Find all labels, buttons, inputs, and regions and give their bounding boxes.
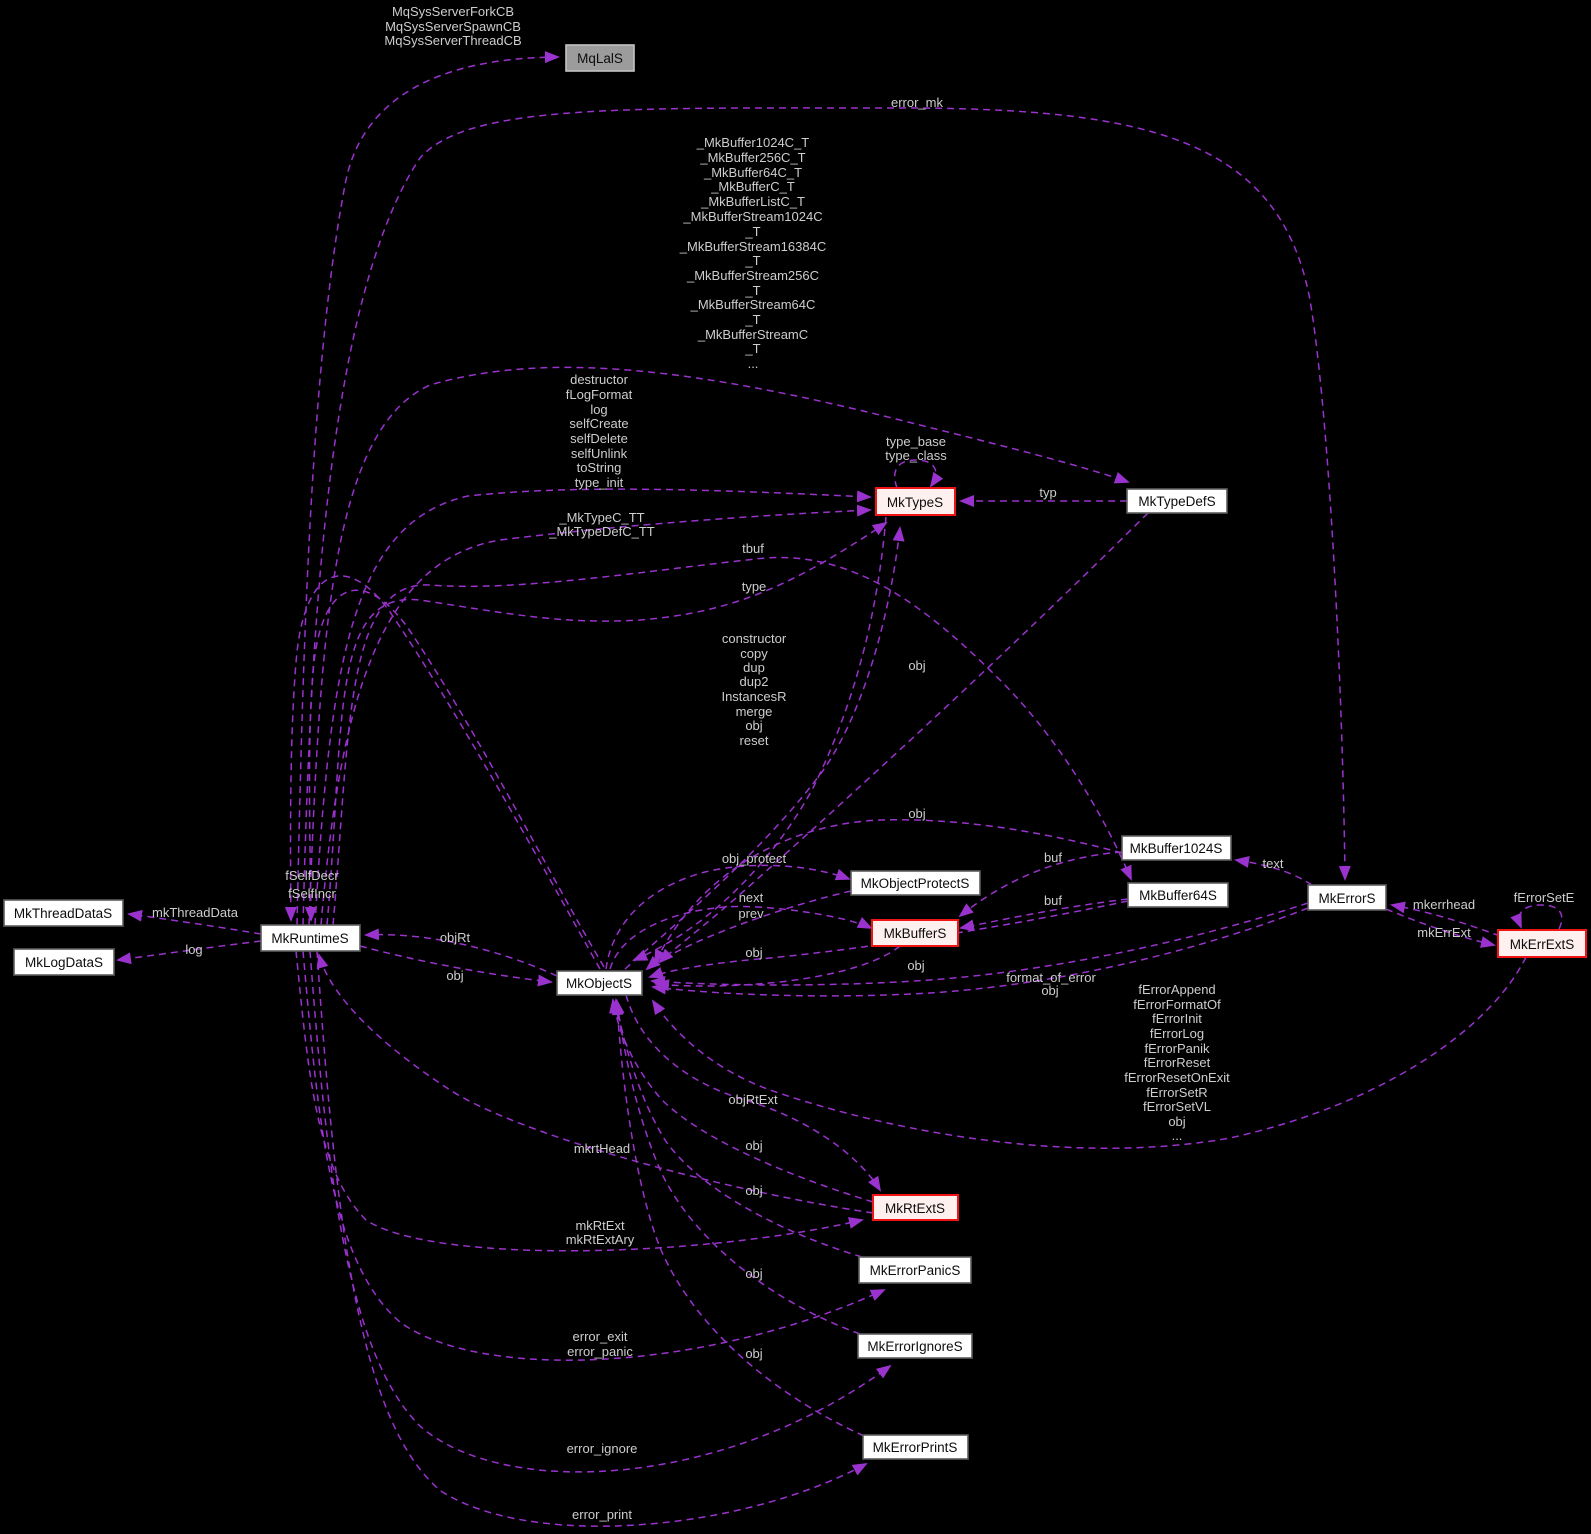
svg-text:fErrorResetOnExit: fErrorResetOnExit bbox=[1124, 1070, 1230, 1085]
wire next prev : MkObjectS to MkBufferS bbox=[610, 907, 871, 969]
wire text : MkErrorS to MkBuffer1024S bbox=[1236, 860, 1312, 885]
wire obj : MkErrorS to MkObjectS lower bbox=[653, 908, 1308, 996]
wire obj : MkErrorPanicS to MkObjectS bbox=[616, 1000, 862, 1257]
svg-text:obj: obj bbox=[745, 1346, 762, 1361]
wire error_exit error_panic : MkRuntimeS to MkErrorPanicS bbox=[303, 951, 884, 1360]
wire obj : MkErrorPrintS to MkObjectS bbox=[617, 1002, 864, 1436]
svg-text:_MkTypeDefC_TT: _MkTypeDefC_TT bbox=[548, 524, 655, 539]
svg-text:fErrorLog: fErrorLog bbox=[1150, 1026, 1204, 1041]
svg-text:_T: _T bbox=[744, 312, 760, 327]
svg-text:next: next bbox=[739, 890, 764, 905]
wire typ : MkTypeDefS to MkTypeS bbox=[961, 500, 1127, 502]
svg-text:mkThreadData: mkThreadData bbox=[152, 905, 239, 920]
wire mkerrhead : MkErrExtS to MkErrorS bbox=[1392, 905, 1500, 936]
svg-text:MkBuffer64S: MkBuffer64S bbox=[1139, 888, 1217, 903]
wire buf : MkBuffer1024S to MkBufferS bbox=[960, 852, 1122, 916]
svg-text:error_mk: error_mk bbox=[891, 95, 944, 110]
svg-text:mkrtHead: mkrtHead bbox=[574, 1141, 630, 1156]
svg-text:MkObjectS: MkObjectS bbox=[566, 976, 632, 991]
svg-text:fErrorFormatOf: fErrorFormatOf bbox=[1133, 997, 1221, 1012]
svg-text:MkBuffer1024S: MkBuffer1024S bbox=[1130, 841, 1223, 856]
svg-text:_MkBufferStream16384C: _MkBufferStream16384C bbox=[679, 239, 826, 254]
wire mkrtHead : MkRtExtS to MkRuntimeS bbox=[319, 955, 873, 1213]
wire MkObjectProtectS to MkObjectS bbox=[647, 891, 851, 969]
node MkErrorIgnoreS bbox=[858, 1334, 972, 1358]
svg-text:obj: obj bbox=[745, 1266, 762, 1281]
svg-text:fSelfDecr: fSelfDecr bbox=[285, 868, 339, 883]
svg-text:...: ... bbox=[1172, 1128, 1183, 1143]
svg-text:obj_protect: obj_protect bbox=[722, 851, 787, 866]
svg-text:dup: dup bbox=[743, 660, 765, 675]
svg-text:text: text bbox=[1263, 856, 1284, 871]
wire obj : MkBuffer64S to MkObjectS bbox=[650, 901, 1128, 977]
svg-text:MkErrorS: MkErrorS bbox=[1319, 891, 1376, 906]
wire obj : MkBuffer1024S to MkObjectS bbox=[655, 820, 1122, 963]
svg-text:obj: obj bbox=[908, 806, 925, 821]
node MkTypeS bbox=[876, 488, 955, 515]
wire buf : MkBuffer64S to MkBufferS bbox=[961, 899, 1128, 928]
svg-text:MkRtExtS: MkRtExtS bbox=[885, 1201, 945, 1216]
node MkBuffer64S bbox=[1128, 883, 1228, 907]
wire mkErrExt : MkErrorS to MkErrExtS bbox=[1386, 909, 1494, 945]
svg-text:MkErrorPrintS: MkErrorPrintS bbox=[873, 1440, 958, 1455]
svg-text:obj: obj bbox=[745, 718, 762, 733]
svg-text:fErrorReset: fErrorReset bbox=[1144, 1055, 1211, 1070]
svg-text:_MkBuffer256C_T: _MkBuffer256C_T bbox=[699, 150, 805, 165]
svg-text:fErrorSetE: fErrorSetE bbox=[1514, 890, 1575, 905]
wire error_ignore : MkRuntimeS to MkErrorIgnoreS bbox=[310, 951, 890, 1472]
wire log : MkRuntimeS to MkLogDataS bbox=[118, 941, 261, 960]
wire objRt : MkObjectS to MkRuntimeS bbox=[366, 935, 557, 976]
svg-text:error_exit: error_exit bbox=[573, 1329, 628, 1344]
svg-text:MkErrorIgnoreS: MkErrorIgnoreS bbox=[867, 1339, 962, 1354]
svg-text:selfDelete: selfDelete bbox=[570, 431, 628, 446]
svg-text:log: log bbox=[185, 942, 202, 957]
svg-text:...: ... bbox=[748, 356, 759, 371]
wire obj : MkBufferS to MkObjectS bbox=[656, 946, 900, 986]
svg-text:constructor: constructor bbox=[722, 631, 787, 646]
svg-text:MqLalS: MqLalS bbox=[577, 51, 623, 66]
svg-text:log: log bbox=[590, 402, 607, 417]
wire _MkTypeC_TT : MkRuntimeS to MkTypeS lower-left bbox=[321, 510, 870, 925]
wire fSelfIncr : MkTypeS to MkRuntimeS bbox=[310, 590, 605, 967]
node MkErrorPrintS bbox=[863, 1435, 968, 1459]
wire MqSysServer* : MkRuntimeS to MqLalS bbox=[297, 57, 558, 925]
wire destructor.. : MkRuntimeS to MkTypeS upper-left bbox=[315, 489, 870, 925]
svg-text:_MkBufferStream1024C: _MkBufferStream1024C bbox=[682, 209, 822, 224]
svg-text:fErrorPanik: fErrorPanik bbox=[1144, 1041, 1210, 1056]
svg-text:_MkBufferStream256C: _MkBufferStream256C bbox=[686, 268, 819, 283]
svg-text:buf: buf bbox=[1044, 850, 1062, 865]
svg-text:fSelfIncr: fSelfIncr bbox=[288, 886, 336, 901]
svg-text:obj: obj bbox=[1168, 1114, 1185, 1129]
svg-text:dup2: dup2 bbox=[740, 674, 769, 689]
node MkLogDataS bbox=[14, 949, 114, 975]
svg-text:_MkTypeC_TT: _MkTypeC_TT bbox=[558, 510, 644, 525]
svg-text:fErrorSetR: fErrorSetR bbox=[1146, 1085, 1207, 1100]
svg-text:fErrorInit: fErrorInit bbox=[1152, 1011, 1202, 1026]
node MkThreadDataS bbox=[4, 900, 123, 926]
svg-text:MkErrExtS: MkErrExtS bbox=[1510, 937, 1575, 952]
svg-text:MkObjectProtectS: MkObjectProtectS bbox=[861, 876, 970, 891]
wire format_of_error : MkErrorS to MkObjectS bbox=[652, 903, 1308, 985]
wire tbuf : MkRuntimeS to MkBuffer64S bbox=[333, 557, 1131, 925]
wire obj : MkObjectS to MkTypeS bottom bbox=[625, 528, 900, 969]
svg-text:_MkBuffer64C_T: _MkBuffer64C_T bbox=[703, 165, 802, 180]
svg-text:obj: obj bbox=[745, 945, 762, 960]
wire type : MkRuntimeS to MkTypeS bottom bbox=[327, 523, 886, 925]
node MkTypeDefS bbox=[1127, 489, 1227, 513]
svg-text:_T: _T bbox=[744, 253, 760, 268]
svg-text:obj: obj bbox=[446, 968, 463, 983]
wire mkThreadData : MkRuntimeS to MkThreadDataS bbox=[129, 914, 261, 934]
wire type_base type_class self loop on MkTypeS bbox=[895, 460, 936, 488]
svg-text:fLogFormat: fLogFormat bbox=[566, 387, 633, 402]
svg-text:buf: buf bbox=[1044, 893, 1062, 908]
svg-text:reset: reset bbox=[740, 733, 769, 748]
wire obj_protect : MkObjectS to MkObjectProtectS bbox=[606, 865, 849, 969]
svg-text:_MkBufferListC_T: _MkBufferListC_T bbox=[700, 194, 805, 209]
svg-text:type_init: type_init bbox=[575, 475, 624, 490]
wire error_mk : MkRuntimeS to MkErrorS bbox=[303, 108, 1345, 925]
svg-text:mkErrExt: mkErrExt bbox=[1417, 925, 1471, 940]
svg-text:type: type bbox=[742, 579, 767, 594]
svg-text:MqSysServerSpawnCB: MqSysServerSpawnCB bbox=[385, 19, 521, 34]
wire obj : MkErrorIgnoreS to MkObjectS bbox=[617, 1001, 860, 1334]
wire obj : MkRuntimeS to MkObjectS bbox=[360, 946, 551, 982]
svg-text:_MkBufferStreamC: _MkBufferStreamC bbox=[697, 327, 808, 342]
svg-text:error_ignore: error_ignore bbox=[567, 1441, 638, 1456]
node MkBuffer1024S bbox=[1122, 836, 1231, 860]
svg-text:selfUnlink: selfUnlink bbox=[571, 446, 628, 461]
svg-text:MkLogDataS: MkLogDataS bbox=[25, 955, 103, 970]
node MkErrorS bbox=[1308, 885, 1386, 910]
svg-text:MqSysServerForkCB: MqSysServerForkCB bbox=[392, 4, 514, 19]
svg-text:error_panic: error_panic bbox=[567, 1344, 633, 1359]
svg-text:copy: copy bbox=[740, 646, 768, 661]
node MkBufferS bbox=[872, 920, 958, 946]
wire fErrorSetE self loop on MkErrExtS bbox=[1519, 905, 1562, 929]
svg-text:typ: typ bbox=[1039, 485, 1056, 500]
wire fSelfDecr : MkTypeS to MkRuntimeS bbox=[291, 576, 600, 969]
node MkErrExtS bbox=[1498, 930, 1586, 957]
svg-text:_T: _T bbox=[744, 283, 760, 298]
svg-text:InstancesR: InstancesR bbox=[721, 689, 786, 704]
svg-text:objRtExt: objRtExt bbox=[728, 1092, 778, 1107]
svg-text:obj: obj bbox=[1041, 983, 1058, 998]
svg-text:toString: toString bbox=[577, 460, 622, 475]
svg-text:fErrorSetVL: fErrorSetVL bbox=[1143, 1099, 1211, 1114]
wire error_print : MkRuntimeS to MkErrorPrintS bbox=[317, 951, 866, 1526]
wire fErrorAppend.. : MkErrExtS to MkObjectS bbox=[653, 957, 1526, 1148]
svg-text:MkRuntimeS: MkRuntimeS bbox=[271, 931, 348, 946]
svg-text:mkRtExt: mkRtExt bbox=[575, 1218, 625, 1233]
wire obj : MkTypeDefS to MkObjectS diagonal bbox=[660, 513, 1148, 962]
svg-text:_MkBufferStream64C: _MkBufferStream64C bbox=[690, 297, 816, 312]
svg-text:error_print: error_print bbox=[572, 1507, 632, 1522]
svg-text:_T: _T bbox=[744, 224, 760, 239]
svg-text:_MkBuffer1024C_T: _MkBuffer1024C_T bbox=[696, 135, 810, 150]
node MkObjectProtectS bbox=[851, 871, 980, 895]
node MkRtExtS bbox=[873, 1195, 958, 1220]
node MkObjectS bbox=[557, 971, 642, 995]
svg-text:obj: obj bbox=[745, 1183, 762, 1198]
wire _MkBuffer*C_T list : MkRuntimeS to MkTypeDefS bbox=[309, 367, 1128, 925]
svg-text:type_class: type_class bbox=[885, 448, 947, 463]
svg-text:objRt: objRt bbox=[440, 930, 471, 945]
svg-text:type_base: type_base bbox=[886, 434, 946, 449]
svg-text:mkRtExtAry: mkRtExtAry bbox=[566, 1232, 635, 1247]
svg-text:fErrorAppend: fErrorAppend bbox=[1138, 982, 1215, 997]
svg-text:tbuf: tbuf bbox=[742, 541, 764, 556]
wire constructor.. : MkTypeS to MkObjectS bbox=[634, 517, 886, 960]
svg-text:prev: prev bbox=[738, 906, 764, 921]
svg-text:MkThreadDataS: MkThreadDataS bbox=[14, 906, 112, 921]
wire obj : MkRtExtS to MkObjectS bbox=[613, 1000, 873, 1202]
svg-text:MkErrorPanicS: MkErrorPanicS bbox=[870, 1263, 961, 1278]
svg-text:selfCreate: selfCreate bbox=[569, 416, 628, 431]
wire objRtExt : MkObjectS to MkRtExtS bbox=[626, 995, 880, 1190]
svg-text:MkTypeS: MkTypeS bbox=[887, 495, 943, 510]
node MqLalS bbox=[566, 45, 634, 71]
node MkErrorPanicS bbox=[859, 1257, 971, 1283]
svg-text:_T: _T bbox=[744, 341, 760, 356]
svg-text:obj: obj bbox=[745, 1138, 762, 1153]
svg-text:obj: obj bbox=[907, 958, 924, 973]
svg-text:MkTypeDefS: MkTypeDefS bbox=[1138, 494, 1215, 509]
svg-text:MqSysServerThreadCB: MqSysServerThreadCB bbox=[384, 33, 521, 48]
svg-text:_MkBufferC_T: _MkBufferC_T bbox=[710, 179, 795, 194]
node MkRuntimeS bbox=[261, 925, 360, 951]
svg-text:merge: merge bbox=[736, 704, 773, 719]
svg-text:destructor: destructor bbox=[570, 372, 628, 387]
svg-text:obj: obj bbox=[908, 658, 925, 673]
wire mkRtExt mkRtExtAry : MkRuntimeS to MkRtExtS bbox=[296, 951, 862, 1251]
svg-text:MkBufferS: MkBufferS bbox=[884, 926, 947, 941]
svg-text:mkerrhead: mkerrhead bbox=[1413, 897, 1475, 912]
